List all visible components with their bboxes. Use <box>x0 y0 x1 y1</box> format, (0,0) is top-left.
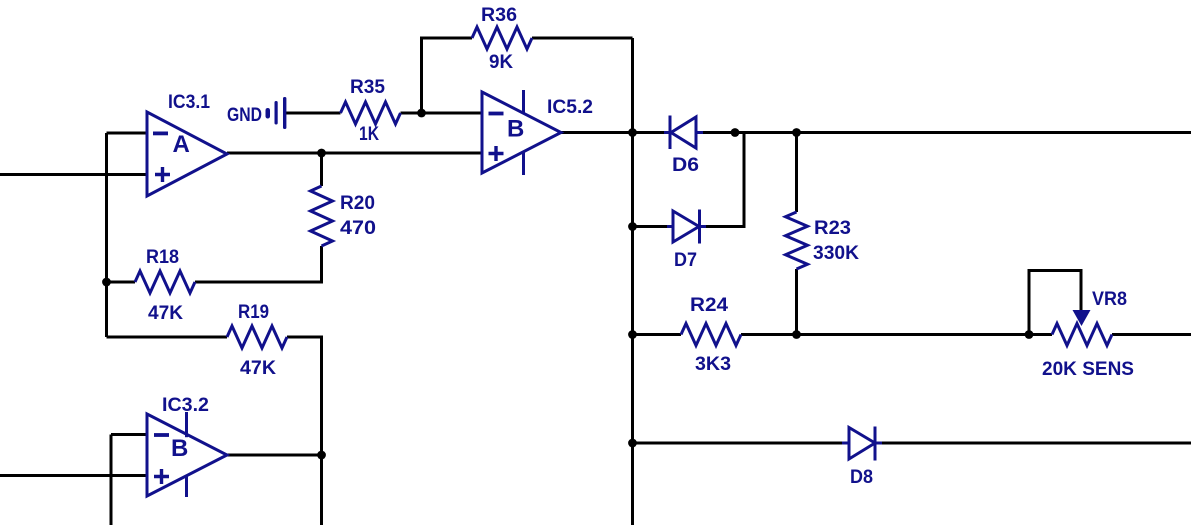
svg-text:R35: R35 <box>350 77 385 98</box>
op-amp IC5.2 plus sign <box>489 146 504 161</box>
svg-text:3K3: 3K3 <box>695 354 731 375</box>
resistor R36 zigzag <box>472 27 532 49</box>
node D8 anode junction <box>628 439 637 448</box>
wire R23 top lead <box>795 133 798 213</box>
wire VR8 wiper loop <box>1029 271 1081 335</box>
op-amp IC3.2 minus sign <box>154 433 169 437</box>
wire R19 right lead down to IC3.2 output node <box>287 337 322 525</box>
svg-text:D8: D8 <box>850 467 873 488</box>
wire R20 bottom lead <box>320 246 323 282</box>
svg-text:D7: D7 <box>674 250 697 271</box>
wire left vertical bus x=106.5 <box>105 133 108 337</box>
op-amp IC3.2 plus sign <box>154 469 169 484</box>
wire D6 left lead <box>633 131 666 134</box>
node VR8 wiper junction <box>1025 330 1034 339</box>
wire GND to R35 <box>286 112 341 115</box>
op-amp IC3.1 plus sign <box>155 167 170 182</box>
svg-text:IC3.1: IC3.1 <box>168 92 210 113</box>
svg-text:A: A <box>173 131 190 158</box>
svg-text:9K: 9K <box>489 52 513 73</box>
svg-text:20K SENS: 20K SENS <box>1042 359 1134 380</box>
node R23 top junction <box>792 128 801 137</box>
svg-text:R19: R19 <box>238 302 269 323</box>
wire D8 right lead to right edge <box>882 442 1191 445</box>
svg-text:GND: GND <box>227 105 262 126</box>
resistor R35 zigzag <box>341 102 401 124</box>
wire vertical D6-D7 link <box>706 133 744 227</box>
svg-text:47K: 47K <box>240 358 276 379</box>
op-amp IC5.2 minus sign <box>489 112 504 116</box>
svg-text:IC3.2: IC3.2 <box>162 395 209 416</box>
wire top right rail to right edge <box>744 131 1191 134</box>
wire IC3.1 output to IC5.2 +input <box>227 152 482 155</box>
resistor R20 zigzag vertical <box>311 186 333 246</box>
wire D6 right lead to corner <box>703 131 744 134</box>
op-amp IC3.1 triangle <box>147 112 227 196</box>
node D6 cathode junction <box>731 128 740 137</box>
svg-text:R23: R23 <box>814 218 851 239</box>
svg-text:47K: 47K <box>148 303 183 324</box>
wire main vertical bus x=632.5 <box>631 38 634 525</box>
op-amp IC5.2 V+ power pin <box>522 90 525 114</box>
wire R18 right lead up to R20 bottom <box>195 246 322 282</box>
GND terminal tall bar <box>283 97 286 129</box>
wire IC3.1 -input stub <box>107 132 148 135</box>
wire R24 right lead to VR8 <box>741 333 1052 336</box>
op-amp IC3.2 V- power pin <box>185 476 188 497</box>
resistor R24 zigzag <box>681 324 741 346</box>
wire R19 left lead <box>107 336 228 339</box>
resistor R19 zigzag <box>227 326 287 348</box>
diode D6 cathode bar <box>669 116 672 150</box>
diode D8 cathode bar <box>874 427 877 461</box>
node R20 top junction <box>317 149 326 158</box>
svg-text:R18: R18 <box>146 247 179 268</box>
wire R24 left lead <box>633 333 682 336</box>
svg-text:B: B <box>507 116 524 143</box>
diode D7 triangle <box>673 211 699 242</box>
diode D6 leads <box>664 131 703 134</box>
potentiometer VR8 zigzag <box>1052 324 1112 346</box>
node IC5.2 output junction <box>628 128 637 137</box>
svg-text:IC5.2: IC5.2 <box>547 97 593 118</box>
GND terminal tick <box>266 108 271 119</box>
diode D7 cathode bar <box>698 210 701 244</box>
svg-text:470: 470 <box>340 218 376 239</box>
resistor R18 zigzag <box>135 271 195 293</box>
wire IC5.2 output <box>561 131 633 134</box>
wire R36 left vertical <box>422 38 473 113</box>
potentiometer VR8 wiper arrow <box>1073 310 1091 326</box>
node IC3.2 output junction <box>317 451 326 460</box>
svg-text:B: B <box>171 435 188 462</box>
wire IC3.2 output <box>227 454 322 457</box>
diode D8 leads <box>842 442 882 445</box>
svg-text:R36: R36 <box>481 5 517 26</box>
svg-text:1K: 1K <box>359 124 379 145</box>
wire R18 left lead <box>107 281 136 284</box>
wire IC3.2 -input vertical to bottom edge <box>110 435 113 525</box>
wire R35 right lead to IC5.2 -input <box>401 112 483 115</box>
op-amp IC3.1 minus sign <box>153 131 168 135</box>
wire IC3.2 -input stub <box>111 433 147 436</box>
diode D6 triangle <box>671 117 696 148</box>
op-amp IC3.2 triangle <box>147 414 227 496</box>
node D7 anode junction <box>628 222 637 231</box>
wire D8 left lead <box>633 442 843 445</box>
svg-text:D6: D6 <box>672 155 699 176</box>
wire R36 right lead <box>532 37 633 40</box>
diode D8 triangle <box>849 428 875 460</box>
svg-text:330K: 330K <box>813 243 859 264</box>
op-amp IC5.2 triangle <box>482 92 561 173</box>
op-amp IC3.2 V+ power pin <box>185 412 188 437</box>
wire IC3.2 +input from left edge <box>0 474 147 477</box>
wire VR8 right lead to right edge <box>1112 333 1191 336</box>
wire R23 bottom lead <box>795 269 798 335</box>
svg-text:R20: R20 <box>340 193 375 214</box>
node R23 bottom junction <box>792 330 801 339</box>
GND terminal short bar <box>275 101 278 125</box>
svg-text:VR8: VR8 <box>1092 289 1127 310</box>
diode D7 leads <box>667 225 706 228</box>
resistor R23 zigzag vertical <box>786 212 808 269</box>
wire R20 top lead <box>320 153 323 186</box>
wire IC3.1 +input from left edge <box>0 173 147 176</box>
wire D7 left lead <box>633 225 668 228</box>
node R24 left junction <box>628 330 637 339</box>
op-amp IC5.2 V- power pin <box>522 152 525 175</box>
svg-text:R24: R24 <box>690 295 728 316</box>
node R35/R36 junction <box>417 109 426 118</box>
node R18 left junction <box>102 278 111 287</box>
